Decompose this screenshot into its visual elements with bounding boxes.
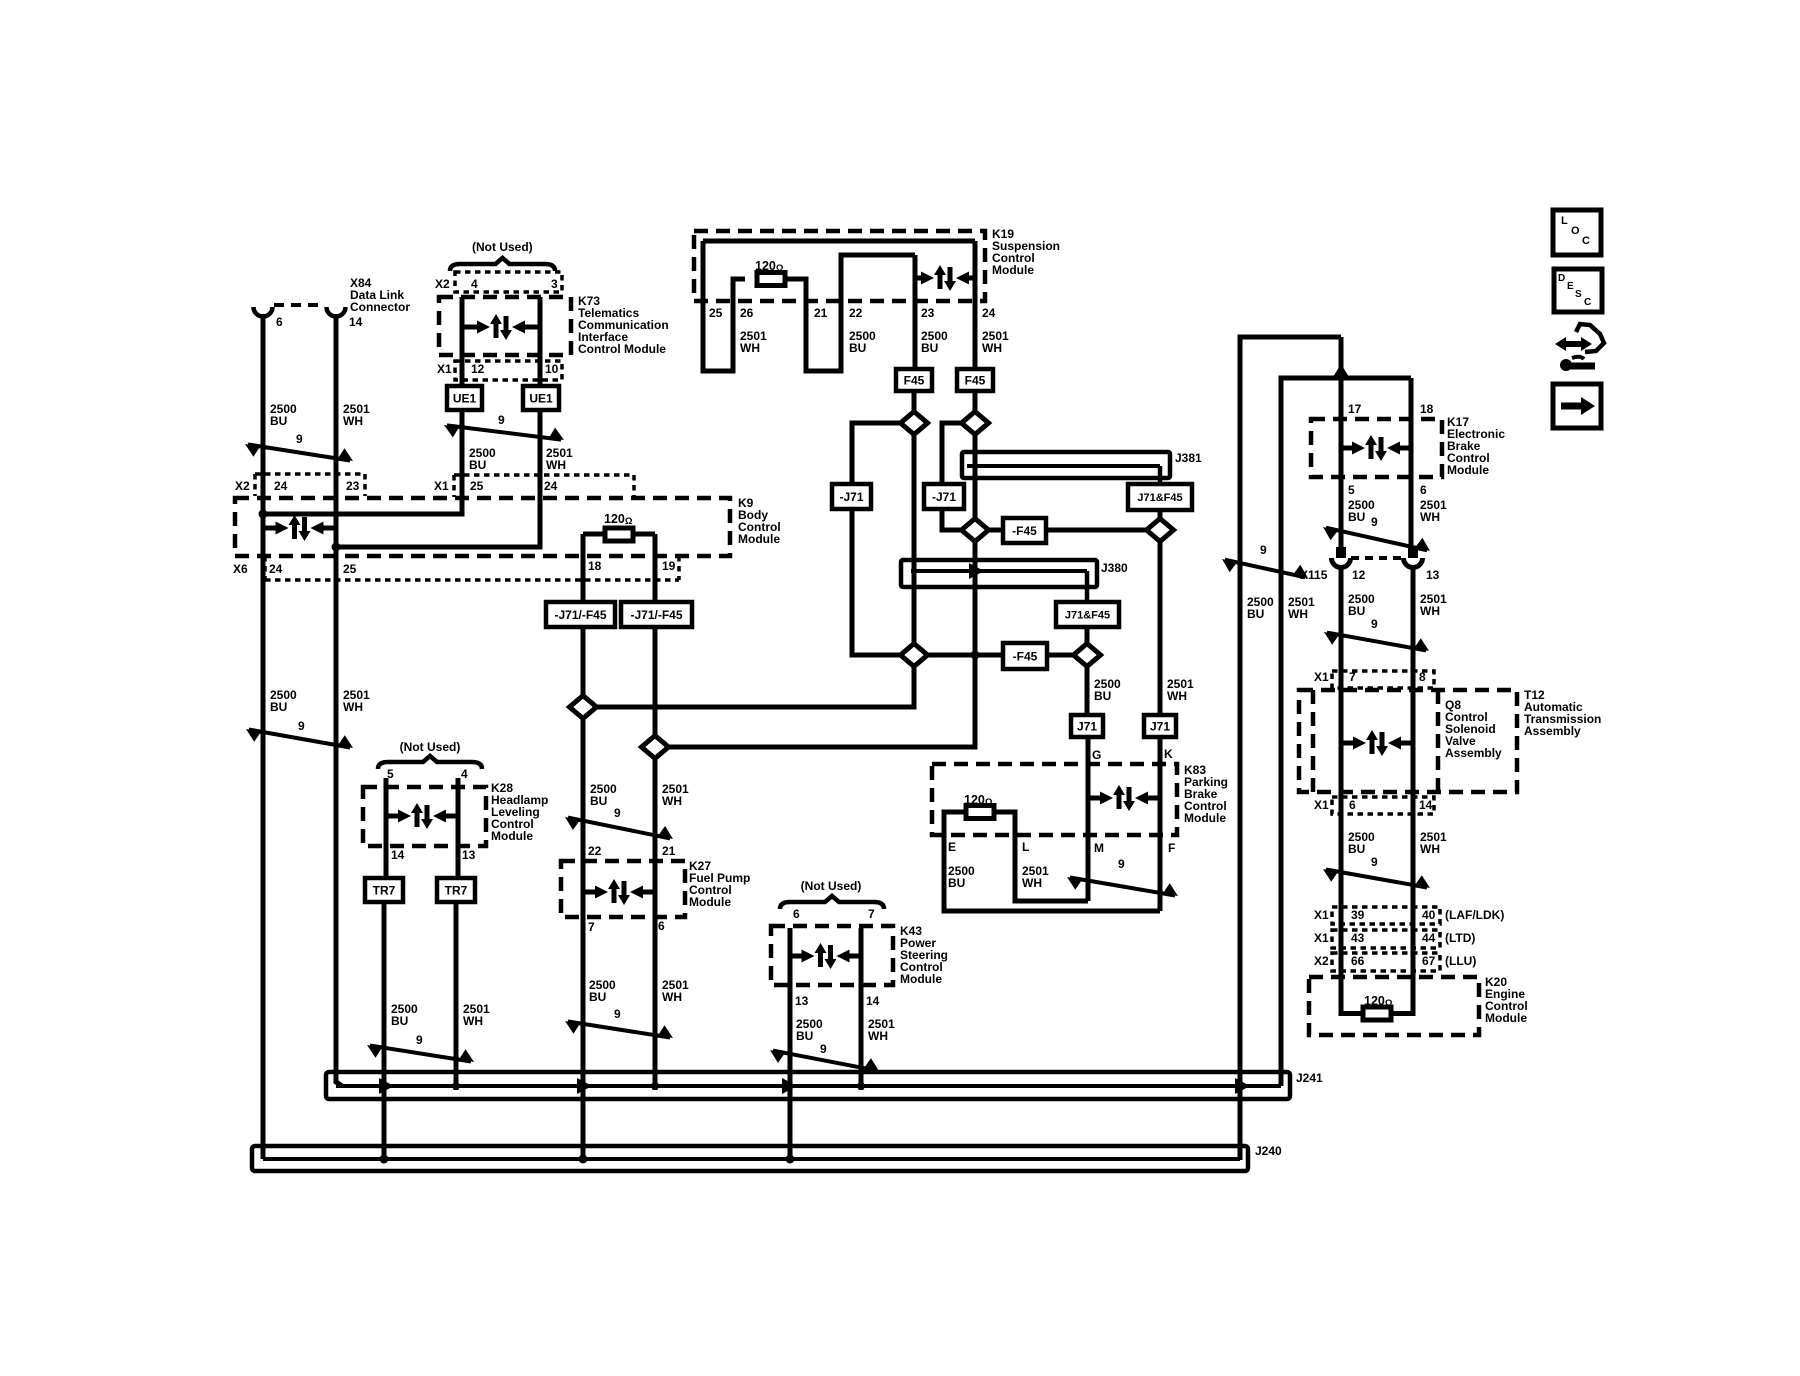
wire K43 right down to J241 bbox=[859, 928, 864, 1090]
svg-text:Module: Module bbox=[1447, 463, 1489, 477]
Q8 module dashed box bbox=[1311, 690, 1316, 792]
K19 data-flow symbol bbox=[915, 276, 922, 281]
svg-text:WH: WH bbox=[662, 794, 682, 808]
svg-text:21: 21 bbox=[662, 844, 676, 858]
svg-text:BU: BU bbox=[1348, 842, 1365, 856]
svg-text:Connector: Connector bbox=[350, 300, 410, 314]
junction dot J241 w456 bbox=[452, 1082, 460, 1090]
splice diamond DE bbox=[901, 644, 928, 667]
svg-text:J71: J71 bbox=[1077, 719, 1097, 733]
wire F45 right to splice bbox=[973, 391, 978, 412]
resistor 120 ohm K20 bbox=[1363, 1007, 1391, 1020]
svg-text:18: 18 bbox=[588, 559, 602, 573]
svg-text:Assembly: Assembly bbox=[1445, 746, 1502, 760]
X115 dashed link bbox=[1351, 556, 1403, 560]
wire X115 right down bbox=[1411, 566, 1416, 1010]
connector X115 left bbox=[1336, 547, 1346, 558]
connector -J71 left bbox=[832, 484, 871, 509]
svg-text:L: L bbox=[1561, 215, 1568, 227]
K20 resistor loop wiring bbox=[1341, 1008, 1363, 1014]
svg-text:WH: WH bbox=[1420, 842, 1440, 856]
junction dot J241 w655 bbox=[651, 1082, 659, 1090]
svg-text:6: 6 bbox=[658, 919, 665, 933]
svg-text:17: 17 bbox=[1348, 402, 1362, 416]
not-used brace K73 bbox=[450, 258, 555, 271]
K73 module dashed box bbox=[439, 297, 571, 355]
svg-text:9: 9 bbox=[614, 806, 621, 820]
svg-text:9: 9 bbox=[1371, 515, 1378, 529]
bus J240 outline bbox=[252, 1146, 1248, 1171]
svg-text:Module: Module bbox=[491, 829, 533, 843]
svg-text:BU: BU bbox=[589, 990, 606, 1004]
svg-text:6: 6 bbox=[793, 907, 800, 921]
connector J71 right bbox=[1144, 715, 1176, 737]
svg-text:9: 9 bbox=[1118, 857, 1125, 871]
svg-text:4: 4 bbox=[471, 277, 478, 291]
svg-text:M: M bbox=[1094, 841, 1104, 855]
splice diamond DH bbox=[642, 736, 669, 759]
svg-text:WH: WH bbox=[463, 1014, 483, 1028]
svg-text:(Not Used): (Not Used) bbox=[801, 879, 862, 893]
bus J241 arrowhead 1 bbox=[379, 1078, 394, 1094]
wire DC down to junction bbox=[973, 541, 978, 747]
wire -J71/-F45 left to DG bbox=[581, 627, 586, 696]
svg-text:26: 26 bbox=[740, 306, 754, 320]
resistor 120 ohm K9 bbox=[605, 528, 633, 541]
K17 module dashed box bbox=[1311, 419, 1442, 477]
icon LOC box bbox=[1553, 210, 1601, 255]
connector X1 row 7/8 bbox=[1332, 671, 1434, 688]
svg-text:UE1: UE1 bbox=[529, 391, 553, 405]
wire J381 to J71&F45 bbox=[1158, 466, 1163, 486]
svg-text:Module: Module bbox=[689, 895, 731, 909]
X84 connector dashed link bbox=[274, 303, 325, 307]
svg-text:5: 5 bbox=[1348, 483, 1355, 497]
svg-text:WH: WH bbox=[982, 341, 1002, 355]
junction dot K9 right bbox=[332, 543, 341, 552]
wire TR7 right down to J241 bbox=[454, 902, 459, 1090]
splice diamond DC bbox=[962, 519, 989, 542]
twisted pair J381 bbox=[962, 452, 1170, 478]
svg-text:(Not Used): (Not Used) bbox=[400, 740, 461, 754]
svg-text:40: 40 bbox=[1422, 908, 1436, 922]
not-used brace K43 bbox=[780, 896, 884, 909]
connector X84 pin 14 terminal cup bbox=[327, 307, 346, 317]
icon forward arrow box bbox=[1553, 384, 1601, 428]
junction dot J240 w384 bbox=[380, 1155, 389, 1164]
svg-text:X2: X2 bbox=[1314, 954, 1329, 968]
K43 data-flow symbol bbox=[790, 954, 803, 959]
svg-text:WH: WH bbox=[343, 700, 363, 714]
svg-text:WH: WH bbox=[546, 458, 566, 472]
svg-text:BU: BU bbox=[270, 414, 287, 428]
svg-text:Module: Module bbox=[1485, 1011, 1527, 1025]
svg-text:(LAF/LDK): (LAF/LDK) bbox=[1445, 908, 1504, 922]
K27 module dashed box bbox=[561, 861, 685, 917]
svg-text:24: 24 bbox=[982, 306, 996, 320]
icon jump arrows and wrench bbox=[1563, 341, 1585, 347]
splice diamond DA bbox=[901, 412, 928, 435]
svg-text:J71&F45: J71&F45 bbox=[1137, 492, 1182, 504]
svg-text:14: 14 bbox=[1419, 798, 1433, 812]
svg-text:F45: F45 bbox=[904, 373, 925, 387]
K83 module dashed box bbox=[932, 764, 1177, 835]
connector TR7 left bbox=[365, 878, 403, 902]
connector X1 row K9 bbox=[454, 473, 634, 477]
svg-text:24: 24 bbox=[269, 562, 283, 576]
svg-text:9: 9 bbox=[820, 1042, 827, 1056]
svg-text:BU: BU bbox=[1094, 689, 1111, 703]
svg-text:12: 12 bbox=[471, 362, 485, 376]
resistor 120 ohm K19 bbox=[757, 273, 785, 286]
svg-text:D: D bbox=[1558, 273, 1565, 284]
circuit 9 reference arrow (X84 pair lower) bbox=[249, 730, 350, 748]
twisted pair J380 bbox=[901, 560, 1097, 587]
svg-text:43: 43 bbox=[1351, 931, 1365, 945]
wire 2500 BU rail to riser bbox=[1240, 337, 1341, 1160]
K19 pin 23 wire bbox=[913, 255, 918, 371]
svg-text:WH: WH bbox=[868, 1029, 888, 1043]
connector F45 left bbox=[896, 369, 932, 391]
wire DE to -F45 lower to DF bbox=[927, 653, 1075, 658]
svg-text:BU: BU bbox=[796, 1029, 813, 1043]
wire K28 pin 4 to TR7 bbox=[456, 778, 461, 880]
connector -F45 lower bbox=[1003, 643, 1047, 669]
wire DA to -J71 left bbox=[852, 423, 901, 486]
junction dot K9 left bbox=[259, 510, 268, 519]
svg-text:L: L bbox=[1022, 840, 1029, 854]
svg-text:BU: BU bbox=[270, 700, 287, 714]
connector -J71 right bbox=[924, 484, 964, 509]
svg-text:X1: X1 bbox=[437, 362, 452, 376]
svg-text:BU: BU bbox=[391, 1014, 408, 1028]
svg-text:WH: WH bbox=[1420, 510, 1440, 524]
svg-text:F45: F45 bbox=[965, 373, 986, 387]
circuit 9 reference arrow (risers) bbox=[1225, 560, 1305, 578]
wire J71&F45 to DD bbox=[1158, 510, 1163, 519]
bus J241 arrowhead 4 bbox=[1235, 1078, 1250, 1094]
wire DB down to DC bbox=[973, 434, 978, 519]
wire DC to -F45 to DD bbox=[988, 528, 1148, 533]
svg-text:66: 66 bbox=[1351, 954, 1365, 968]
svg-text:X1: X1 bbox=[1314, 931, 1329, 945]
svg-text:25: 25 bbox=[709, 306, 723, 320]
wire J71&F45 lower to DF bbox=[1085, 627, 1090, 645]
K83 resistor loop wiring bbox=[944, 812, 1160, 911]
connector TR7 right bbox=[437, 878, 475, 902]
svg-text:G: G bbox=[1092, 748, 1101, 762]
svg-text:-J71: -J71 bbox=[932, 490, 956, 504]
svg-text:BU: BU bbox=[1247, 607, 1264, 621]
svg-text:14: 14 bbox=[866, 994, 880, 1008]
svg-text:10: 10 bbox=[545, 362, 559, 376]
connector F45 right bbox=[957, 369, 993, 391]
wire 2501 WH from X84 pin 14 down to J241 bbox=[336, 314, 342, 1086]
K19 pin25-pin26 loop bbox=[703, 241, 745, 371]
K27 data-flow symbol bbox=[583, 890, 596, 895]
circuit 9 reference arrow (K27 upper) bbox=[568, 818, 670, 839]
K19 pin 24 wire bbox=[973, 241, 978, 371]
svg-text:Module: Module bbox=[992, 263, 1034, 277]
svg-text:X115: X115 bbox=[1300, 568, 1328, 582]
K28 data-flow symbol bbox=[386, 814, 399, 819]
svg-text:J380: J380 bbox=[1101, 561, 1128, 575]
svg-text:6: 6 bbox=[1420, 483, 1427, 497]
svg-text:WH: WH bbox=[1022, 876, 1042, 890]
up arrowhead on pin17 wire bbox=[1333, 364, 1349, 377]
svg-text:BU: BU bbox=[921, 341, 938, 355]
svg-text:Module: Module bbox=[1184, 811, 1226, 825]
svg-text:E: E bbox=[948, 840, 956, 854]
wire junction down left to DH bbox=[668, 660, 975, 747]
svg-text:X2: X2 bbox=[435, 277, 450, 291]
K17 data-flow symbol bbox=[1341, 446, 1353, 451]
svg-text:12: 12 bbox=[1352, 568, 1366, 582]
connector X1 row 39/40 bbox=[1332, 907, 1440, 924]
svg-text:24: 24 bbox=[544, 479, 558, 493]
junction dot J241 w861 bbox=[857, 1082, 865, 1090]
svg-text:14: 14 bbox=[391, 848, 405, 862]
T12 assembly dashed box bbox=[1299, 690, 1517, 792]
connector J71&F45 upper bbox=[1128, 484, 1192, 510]
svg-text:WH: WH bbox=[343, 414, 363, 428]
svg-text:19: 19 bbox=[662, 559, 676, 573]
svg-text:13: 13 bbox=[462, 848, 476, 862]
circuit 9 reference arrow (K43) bbox=[773, 1051, 876, 1071]
svg-text:BU: BU bbox=[948, 876, 965, 890]
svg-text:X2: X2 bbox=[235, 479, 250, 493]
svg-text:X1: X1 bbox=[1314, 908, 1329, 922]
K9 module dashed box bbox=[235, 498, 730, 556]
svg-text:X1: X1 bbox=[1314, 670, 1329, 684]
wire -J71 left down to DE bbox=[852, 509, 901, 655]
connector -J71/-F45 left bbox=[546, 602, 615, 627]
svg-text:J240: J240 bbox=[1255, 1144, 1282, 1158]
connector J71 left bbox=[1071, 715, 1103, 737]
connector X1 row 6/14 bbox=[1332, 797, 1434, 814]
svg-text:BU: BU bbox=[1348, 604, 1365, 618]
not-used brace K28 bbox=[378, 756, 482, 769]
svg-text:C: C bbox=[1584, 297, 1591, 308]
splice diamond DG bbox=[570, 696, 597, 719]
svg-text:WH: WH bbox=[1420, 604, 1440, 618]
svg-text:25: 25 bbox=[470, 479, 484, 493]
svg-text:Module: Module bbox=[900, 972, 942, 986]
wire K17 pin 18 bbox=[1409, 378, 1414, 551]
wire 2501 WH rail to riser bbox=[1281, 378, 1411, 1086]
svg-text:9: 9 bbox=[1260, 543, 1267, 557]
svg-text:9: 9 bbox=[298, 719, 305, 733]
wire X115 left down bbox=[1339, 566, 1344, 1010]
svg-text:13: 13 bbox=[1426, 568, 1440, 582]
wire UE1 right down into K9 bbox=[336, 410, 540, 547]
K9 resistor loop wiring bbox=[583, 532, 605, 537]
svg-text:6: 6 bbox=[276, 315, 283, 329]
connector X2 row K73 bbox=[455, 272, 562, 292]
junction dot J240 w790 bbox=[786, 1155, 795, 1164]
svg-text:WH: WH bbox=[1288, 607, 1308, 621]
wire -J71 right down to DC bbox=[942, 509, 962, 530]
circuit 9 reference arrow (K73) bbox=[447, 425, 561, 439]
svg-text:BU: BU bbox=[469, 458, 486, 472]
svg-text:WH: WH bbox=[1167, 689, 1187, 703]
svg-text:9: 9 bbox=[498, 413, 505, 427]
svg-text:J381: J381 bbox=[1175, 451, 1202, 465]
connector -F45 upper bbox=[1003, 518, 1046, 543]
splice diamond DD bbox=[1147, 519, 1174, 542]
svg-text:-F45: -F45 bbox=[1013, 649, 1038, 663]
circuit 9 reference arrow (X115) bbox=[1327, 633, 1426, 651]
wire -J71/-F45 right to DH bbox=[653, 627, 658, 736]
svg-text:23: 23 bbox=[346, 479, 360, 493]
svg-text:18: 18 bbox=[1420, 402, 1434, 416]
svg-text:7: 7 bbox=[588, 920, 595, 934]
wire DA down to DE bbox=[912, 434, 917, 645]
connector X1 row 43/44 bbox=[1332, 930, 1440, 948]
svg-text:BU: BU bbox=[1348, 510, 1365, 524]
connector UE1 right bbox=[523, 386, 559, 410]
svg-text:F: F bbox=[1168, 841, 1175, 855]
wire J380 to J71&F45 lower bbox=[1085, 571, 1090, 604]
svg-text:67: 67 bbox=[1422, 954, 1436, 968]
svg-text:X1: X1 bbox=[1314, 798, 1329, 812]
Q8 data-flow symbol bbox=[1341, 741, 1354, 746]
svg-text:(LLU): (LLU) bbox=[1445, 954, 1476, 968]
wire DH down through K27 to J241 bbox=[653, 758, 658, 1090]
svg-text:-J71/-F45: -J71/-F45 bbox=[554, 608, 606, 622]
svg-text:BU: BU bbox=[590, 794, 607, 808]
svg-text:J71&F45: J71&F45 bbox=[1065, 609, 1110, 621]
svg-text:14: 14 bbox=[349, 315, 363, 329]
wire K28 pin 5 to TR7 bbox=[384, 778, 389, 880]
icon DESC box bbox=[1554, 269, 1602, 312]
K43 module dashed box bbox=[771, 926, 893, 985]
junction dot J240 w582 bbox=[579, 1155, 588, 1164]
svg-text:Module: Module bbox=[738, 532, 780, 546]
circuit 9 reference arrow (K17) bbox=[1326, 528, 1427, 551]
wire 2500 BU from X84 pin 6 down to J240 bbox=[261, 314, 266, 1159]
circuit 9 reference arrow (K28) bbox=[370, 1045, 471, 1061]
svg-text:-J71/-F45: -J71/-F45 bbox=[630, 608, 682, 622]
splice diamond DF bbox=[1074, 644, 1101, 667]
svg-text:(Not Used): (Not Used) bbox=[472, 240, 533, 254]
K73 data-flow symbol bbox=[462, 325, 478, 330]
svg-text:9: 9 bbox=[1371, 617, 1378, 631]
svg-text:23: 23 bbox=[921, 306, 935, 320]
connector UE1 left bbox=[447, 386, 482, 410]
wire K83 pin M bbox=[1086, 737, 1091, 901]
K28 module dashed box bbox=[363, 787, 486, 846]
svg-text:7: 7 bbox=[868, 907, 875, 921]
wire K73 pin 4 to UE1 bbox=[460, 297, 465, 388]
svg-text:X6: X6 bbox=[233, 562, 248, 576]
circuit 9 reference arrow (K83) bbox=[1070, 878, 1175, 896]
connector J71&F45 lower bbox=[1056, 602, 1119, 627]
svg-text:-J71: -J71 bbox=[839, 490, 863, 504]
bus J241 outline bbox=[326, 1072, 1290, 1099]
K20 module dashed box bbox=[1309, 977, 1479, 1035]
svg-text:21: 21 bbox=[814, 306, 828, 320]
svg-text:4: 4 bbox=[461, 767, 468, 781]
svg-text:UE1: UE1 bbox=[453, 391, 477, 405]
resistor 120 ohm K83 bbox=[966, 806, 994, 819]
wire DD down to J71 right bbox=[1158, 541, 1163, 717]
svg-text:9: 9 bbox=[614, 1007, 621, 1021]
wire F45 left to splice bbox=[912, 391, 917, 412]
K9 data-flow symbol bbox=[263, 526, 277, 531]
connector X2 row K9 bbox=[255, 472, 365, 476]
svg-text:7: 7 bbox=[1349, 670, 1356, 684]
svg-text:-F45: -F45 bbox=[1012, 524, 1037, 538]
connector X2 row 66/67 bbox=[1332, 953, 1440, 971]
svg-text:Assembly: Assembly bbox=[1524, 724, 1581, 738]
svg-text:44: 44 bbox=[1422, 931, 1436, 945]
bus J241 arrowhead 3 bbox=[782, 1078, 797, 1094]
circuit 9 reference arrow (X84 pair upper) bbox=[248, 444, 350, 460]
svg-text:24: 24 bbox=[274, 479, 288, 493]
svg-text:39: 39 bbox=[1351, 908, 1365, 922]
svg-text:9: 9 bbox=[416, 1033, 423, 1047]
connector X1 row K73 bbox=[455, 361, 562, 380]
svg-text:TR7: TR7 bbox=[373, 883, 396, 897]
svg-text:22: 22 bbox=[849, 306, 863, 320]
connector X115 right bbox=[1408, 547, 1418, 558]
wire DG down through K27 to J240 bbox=[581, 718, 586, 1160]
wire K83 pin F bbox=[1158, 737, 1163, 911]
wire DB to -J71 right bbox=[942, 423, 962, 486]
svg-text:(LTD): (LTD) bbox=[1445, 931, 1475, 945]
wire K73 pin 3 to UE1 bbox=[538, 297, 543, 388]
svg-text:K: K bbox=[1164, 747, 1173, 761]
wire K43 left down to J240 bbox=[788, 928, 793, 1160]
bus J240 inner wire bbox=[263, 1157, 1240, 1161]
svg-text:25: 25 bbox=[343, 562, 357, 576]
svg-text:9: 9 bbox=[296, 432, 303, 446]
svg-text:E: E bbox=[1567, 281, 1574, 292]
splice diamond DB bbox=[962, 412, 989, 435]
junction dot splice bbox=[971, 651, 980, 660]
svg-text:8: 8 bbox=[1419, 670, 1426, 684]
svg-text:13: 13 bbox=[795, 994, 809, 1008]
svg-text:22: 22 bbox=[588, 844, 602, 858]
svg-text:J71: J71 bbox=[1150, 719, 1170, 733]
svg-text:WH: WH bbox=[740, 341, 760, 355]
svg-text:C: C bbox=[1582, 235, 1590, 247]
connector -J71/-F45 right bbox=[621, 602, 692, 627]
svg-text:J241: J241 bbox=[1296, 1071, 1323, 1085]
svg-text:BU: BU bbox=[849, 341, 866, 355]
wire DF down to J71 left bbox=[1085, 667, 1090, 717]
circuit 9 reference arrow (K27 lower) bbox=[568, 1021, 670, 1037]
K19 module dashed box bbox=[694, 231, 985, 301]
svg-text:Control Module: Control Module bbox=[578, 342, 666, 356]
wire UE1 left down into K9 bbox=[263, 410, 462, 514]
svg-text:WH: WH bbox=[662, 990, 682, 1004]
wire DE down left to DG bbox=[596, 667, 914, 707]
K19 internal top wire bbox=[703, 239, 975, 244]
bus J241 inner wire bbox=[336, 1084, 1281, 1088]
connector X84 pin 6 terminal cup bbox=[254, 307, 273, 317]
svg-text:3: 3 bbox=[551, 277, 558, 291]
K83 data-flow symbol bbox=[1088, 796, 1101, 801]
wire TR7 left down to J240 bbox=[382, 902, 387, 1160]
svg-text:X1: X1 bbox=[434, 479, 449, 493]
bus J241 arrowhead 2 bbox=[577, 1078, 592, 1094]
svg-text:O: O bbox=[1571, 225, 1580, 237]
K19 pin21-pin22 loop bbox=[785, 255, 915, 371]
svg-text:6: 6 bbox=[1349, 798, 1356, 812]
svg-text:S: S bbox=[1575, 289, 1582, 300]
